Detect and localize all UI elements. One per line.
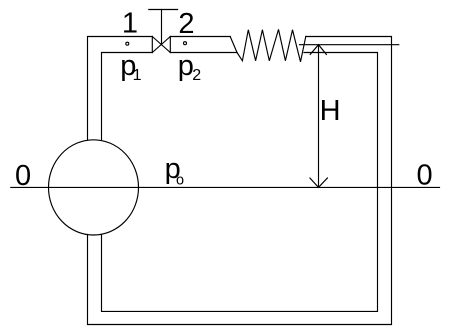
- svg-text:2: 2: [178, 8, 194, 40]
- pressure tap p2 (small circle): [184, 42, 187, 45]
- wire: taper diagonal at pipe end: [230, 37, 237, 53]
- svg-text:p1: p1: [120, 50, 141, 84]
- node: H extension line at pipe centre level: [300, 44, 399, 46]
- valve V1 (bowtie with seat edges): [152, 37, 170, 53]
- svg-text:0: 0: [417, 159, 433, 191]
- valve stem: [161, 10, 163, 45]
- arrowhead up of H dimension: [310, 45, 326, 55]
- svg-text:po: po: [165, 153, 184, 188]
- spring: corrugated elastic section: [237, 29, 306, 61]
- datum line 0-0: [11, 186, 440, 188]
- wire: top-right inner wall, right inner wall, bottom inner wall, lower-left inner wall: [102, 53, 378, 312]
- wire: left pipe inner wall and top inner wall to valve: [102, 53, 153, 141]
- wire: top inner wall from valve to corrugation: [170, 52, 237, 54]
- svg-text:1: 1: [122, 7, 138, 39]
- wire: top outer wall from valve to taper: [170, 36, 230, 38]
- svg-text:H: H: [320, 95, 341, 127]
- wire: top-right outer wall, right outer wall, bottom outer wall, lower-left outer wall: [88, 37, 392, 325]
- dimension H line: [318, 45, 320, 188]
- arrowhead down of H dimension: [310, 178, 328, 187]
- valve handle: [149, 9, 178, 11]
- svg-text:p2: p2: [178, 50, 201, 84]
- pump (circle): [49, 140, 139, 235]
- pressure tap p1 (small circle): [126, 42, 129, 45]
- wire: left pipe outer wall and top outer wall to valve: [88, 37, 153, 141]
- svg-text:0: 0: [15, 160, 31, 192]
